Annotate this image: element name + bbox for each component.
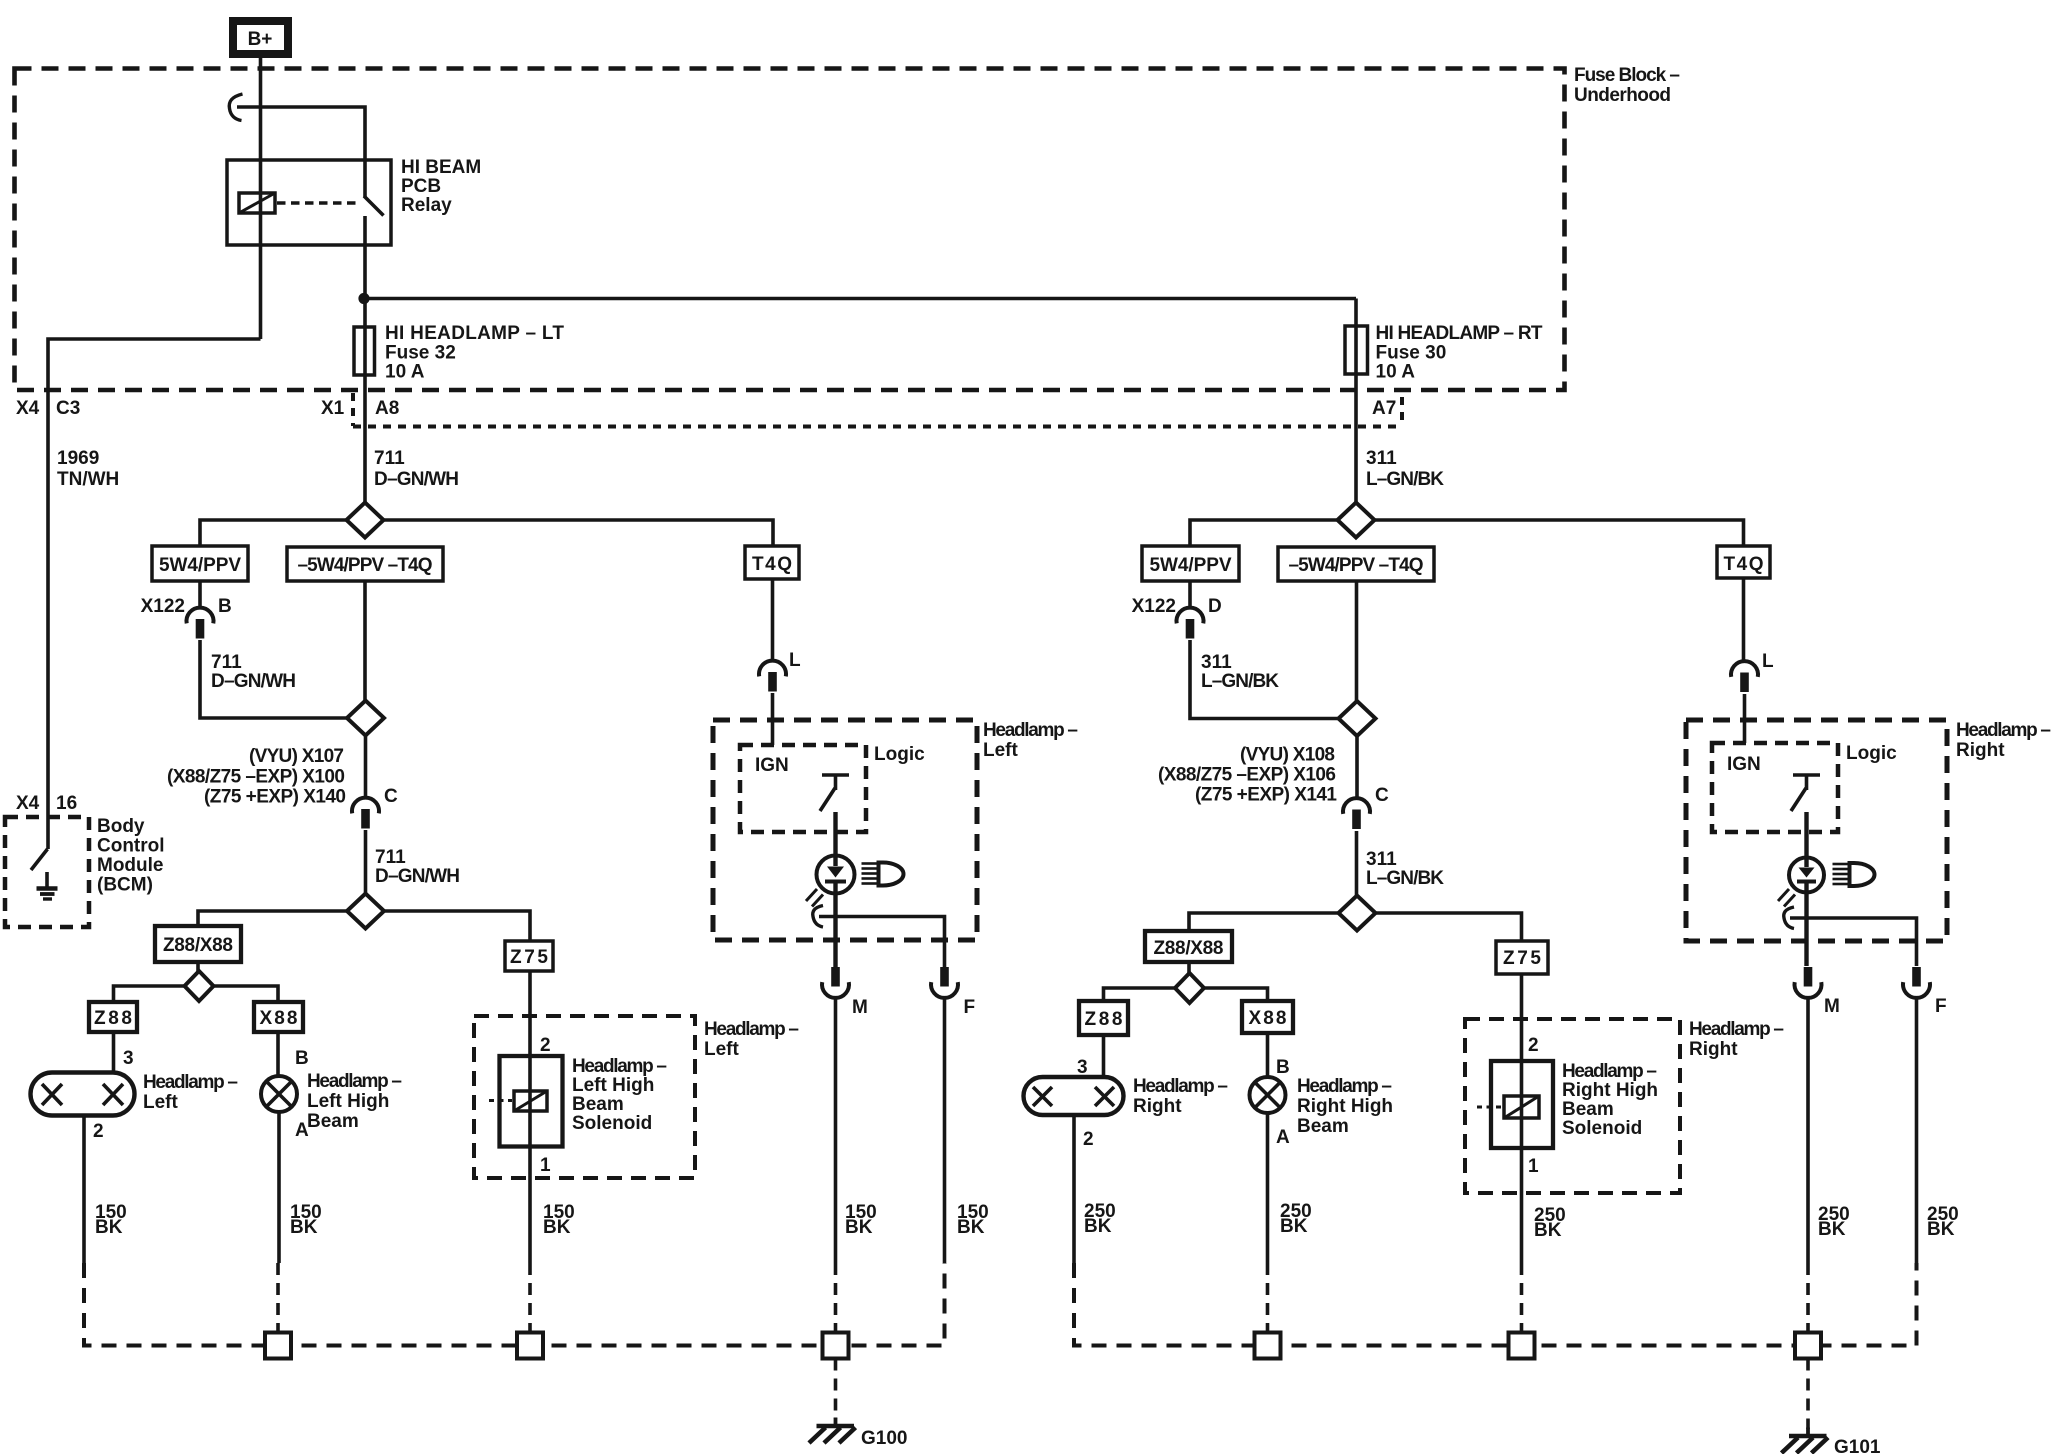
- label Headlamp - Left (solenoid box): [704, 1019, 799, 1060]
- svg-text:(X88/Z75 –EXP) X106: (X88/Z75 –EXP) X106: [1158, 765, 1336, 786]
- svg-text:Z75: Z75: [1503, 948, 1541, 969]
- svg-text:16: 16: [56, 793, 77, 814]
- fuse F30 HI HEADLAMP RT: [1345, 326, 1368, 374]
- ground junction square (X88 right drop): [1255, 1333, 1281, 1359]
- svg-text:10 A: 10 A: [1376, 362, 1416, 383]
- svg-text:Headlamp –: Headlamp –: [1297, 1076, 1392, 1097]
- inline connector pin C right: [1343, 798, 1370, 829]
- svg-text:TN/WH: TN/WH: [57, 469, 119, 490]
- svg-text:BK: BK: [95, 1217, 123, 1238]
- ignition switch symbol left: [820, 775, 849, 811]
- svg-text:A: A: [1276, 1127, 1290, 1148]
- svg-text:1: 1: [540, 1155, 551, 1176]
- svg-text:(Z75 +EXP) X141: (Z75 +EXP) X141: [1195, 785, 1337, 806]
- svg-text:Z88/X88: Z88/X88: [163, 935, 233, 956]
- svg-text:X4: X4: [16, 793, 40, 814]
- splice S3 left: [347, 894, 384, 929]
- wire Z88/X88 to splice S4: [196, 962, 200, 972]
- svg-text:HI HEADLAMP – LT: HI HEADLAMP – LT: [385, 323, 564, 344]
- ground junction square (M right drop): [1795, 1333, 1821, 1359]
- svg-text:X122: X122: [141, 596, 185, 617]
- headlamp right high beam bulb: [1250, 1077, 1286, 1113]
- relay control wire: [237, 107, 365, 160]
- label Headlamp - Right (module): [1956, 720, 2051, 761]
- svg-text:Headlamp –: Headlamp –: [1956, 720, 2051, 741]
- connector X1 stub right: [1400, 397, 1404, 426]
- relay coil: [239, 193, 275, 213]
- LED indicator right: [1778, 857, 1824, 907]
- wire S1R to 5W4/PPV right: [1190, 520, 1338, 546]
- svg-text:Beam: Beam: [1297, 1116, 1349, 1137]
- ground bus left dashed: [84, 1263, 945, 1346]
- svg-text:B: B: [218, 596, 232, 617]
- wire S4R to Z88 right: [1104, 988, 1176, 1001]
- IGN dashed box left: [740, 745, 866, 832]
- wire 5W4/PPV right to connector X122-D: [1188, 581, 1192, 608]
- ground junction square (X88 drop): [265, 1333, 291, 1359]
- label connector X1 pin A8: [321, 398, 399, 419]
- wire label 311 L-GN/BK mid: [1201, 652, 1279, 692]
- relay actuation dashed link: [277, 201, 357, 205]
- svg-text:T4Q: T4Q: [1724, 554, 1764, 575]
- svg-text:X88: X88: [1249, 1008, 1287, 1029]
- headlamp right module dashed box: [1686, 720, 1947, 941]
- splice S2 left: [347, 701, 384, 736]
- branch wire to pin F right: [1790, 918, 1917, 966]
- svg-text:Headlamp –: Headlamp –: [1689, 1019, 1784, 1040]
- wire X122-D to splice S2R: [1190, 640, 1339, 719]
- splice S1 left: [347, 503, 384, 538]
- wire to ground G100: [834, 1359, 838, 1420]
- wire S1R to T4Q right: [1375, 520, 1744, 546]
- svg-text:311: 311: [1366, 849, 1397, 870]
- svg-text:D–GN/WH: D–GN/WH: [375, 866, 460, 887]
- solenoid body right: [1491, 1061, 1553, 1148]
- splice S4 right: [1175, 973, 1204, 1003]
- svg-text:Z88/X88: Z88/X88: [1154, 938, 1224, 959]
- svg-text:BK: BK: [1927, 1219, 1955, 1240]
- inline connector pin L right: [1731, 661, 1758, 692]
- BCM switch blade: [31, 849, 48, 870]
- relay switch contact wire: [363, 160, 367, 197]
- wire S1 to 5W4/PPV: [200, 520, 347, 546]
- svg-text:B: B: [295, 1048, 309, 1069]
- svg-text:5W4/PPV: 5W4/PPV: [159, 555, 241, 576]
- wire Z75 to solenoid: [528, 971, 532, 1263]
- wire label 1969 TN/WH: [57, 448, 119, 490]
- svg-text:1969: 1969: [57, 448, 99, 469]
- wire switch to LED left: [833, 812, 837, 857]
- connector pin F left: [931, 967, 958, 998]
- svg-text:Z88: Z88: [1085, 1009, 1123, 1030]
- wire -5W4/PPV-T4Q right to splice S2R: [1355, 581, 1359, 702]
- ground G101: [1782, 1428, 1829, 1454]
- svg-text:C3: C3: [56, 398, 80, 419]
- svg-text:(VYU) X107: (VYU) X107: [249, 746, 344, 767]
- svg-text:Left: Left: [983, 740, 1019, 761]
- wire label 150 BK (F): [957, 1202, 989, 1238]
- label Headlamp - Left High Beam: [307, 1071, 402, 1132]
- svg-text:IGN: IGN: [1727, 754, 1761, 775]
- wire S3 to Z88/X88: [198, 911, 347, 926]
- net box -5W4/PPV -T4Q left: [287, 547, 443, 581]
- connector X1 dotted boundary: [353, 425, 1402, 429]
- svg-text:BK: BK: [290, 1217, 318, 1238]
- svg-text:PCB: PCB: [401, 176, 441, 197]
- svg-text:Headlamp –: Headlamp –: [1133, 1076, 1228, 1097]
- wire coil to BCM branch horizontal: [48, 339, 261, 849]
- svg-text:Headlamp –: Headlamp –: [307, 1071, 402, 1092]
- wire label 150 BK (M): [845, 1202, 877, 1238]
- net box Z88 left: [89, 1002, 137, 1032]
- svg-text:Z88: Z88: [94, 1008, 132, 1029]
- junction node dot: [358, 293, 369, 304]
- wire to ground G101: [1806, 1359, 1810, 1430]
- label fuse 32: [385, 323, 564, 383]
- branch wire to pin F left: [819, 917, 945, 968]
- inline connector pin C left: [352, 798, 379, 829]
- wire L right to logic module: [1743, 694, 1747, 743]
- svg-text:Right High: Right High: [1562, 1080, 1658, 1101]
- clip curl at relay control wire end: [229, 94, 242, 121]
- wire Z75 right to solenoid: [1520, 974, 1524, 1263]
- label Fuse Block - Underhood: [1574, 65, 1680, 106]
- net box 5W4/PPV right: [1142, 546, 1239, 581]
- wire label 311 L-GN/BK: [1366, 448, 1444, 490]
- label Headlamp - Left (module): [983, 720, 1078, 761]
- wire label 150 BK (headlamp left): [95, 1202, 127, 1238]
- solenoid coil right: [1504, 1096, 1539, 1118]
- ground junction square (solenoid right drop): [1509, 1333, 1535, 1359]
- LED indicator left: [806, 856, 855, 907]
- wire X88 to high beam pin B: [276, 1032, 280, 1076]
- svg-text:BK: BK: [957, 1217, 985, 1238]
- net box -5W4/PPV -T4Q right: [1278, 547, 1434, 581]
- label Headlamp - Left: [143, 1072, 238, 1113]
- svg-text:Solenoid: Solenoid: [572, 1113, 652, 1134]
- svg-text:M: M: [1824, 996, 1840, 1017]
- wire T4Q right to connector L: [1742, 578, 1746, 661]
- wire C right to splice S3R: [1355, 831, 1359, 896]
- svg-text:Headlamp –: Headlamp –: [143, 1072, 238, 1093]
- headlamp beam icon left: [862, 863, 904, 886]
- svg-text:2: 2: [93, 1121, 104, 1142]
- connector pin F right: [1903, 967, 1930, 998]
- net box X88 right: [1242, 1001, 1293, 1033]
- svg-text:F: F: [964, 997, 976, 1018]
- svg-text:311: 311: [1201, 652, 1232, 673]
- headlamp left high beam bulb: [261, 1076, 297, 1112]
- solenoid linkage dashed stub right: [1477, 1106, 1503, 1109]
- headlamp left bulb (dual filament): [31, 1073, 135, 1116]
- wire Z88/X88 right to splice S4R: [1187, 962, 1191, 974]
- label Headlamp - Right: [1133, 1076, 1228, 1117]
- wire Z88 right to headlamp pin 3: [1102, 1035, 1106, 1078]
- inline connector X122 pin D: [1177, 608, 1204, 639]
- label fuse 30: [1376, 323, 1543, 383]
- svg-text:Headlamp –: Headlamp –: [1562, 1061, 1657, 1082]
- svg-text:2: 2: [540, 1035, 551, 1056]
- label Headlamp Left High Beam Solenoid: [572, 1056, 667, 1134]
- svg-text:3: 3: [123, 1048, 134, 1069]
- connector X1 stub left: [351, 393, 355, 426]
- label Headlamp - Right (solenoid box): [1689, 1019, 1784, 1060]
- wire S2R to connector C right: [1355, 736, 1359, 799]
- svg-text:Underhood: Underhood: [1574, 85, 1671, 106]
- wire F down: [943, 998, 947, 1263]
- svg-text:A: A: [295, 1120, 309, 1141]
- svg-text:X88: X88: [260, 1008, 298, 1029]
- wire C to splice S3: [364, 830, 368, 894]
- wire headlamp right pin 2 down: [1072, 1115, 1076, 1263]
- wire L to logic module: [771, 693, 775, 745]
- svg-text:Fuse 30: Fuse 30: [1376, 343, 1447, 364]
- svg-text:T4Q: T4Q: [752, 554, 792, 575]
- svg-text:Control: Control: [97, 836, 165, 857]
- net box T4Q right: [1717, 546, 1770, 578]
- wire label 150 BK (high beam): [290, 1202, 322, 1238]
- svg-text:Right High: Right High: [1297, 1096, 1393, 1117]
- wire label 250 BK (high beam right): [1280, 1201, 1312, 1237]
- wire F right down: [1915, 998, 1919, 1263]
- connector pin M left: [822, 967, 849, 998]
- clip curl at branch right: [1784, 907, 1794, 929]
- wire X122-B to splice S2: [200, 640, 348, 718]
- svg-text:BK: BK: [1084, 1216, 1112, 1237]
- svg-text:BK: BK: [1818, 1219, 1846, 1240]
- svg-text:Right: Right: [1133, 1096, 1182, 1117]
- net box T4Q left: [745, 546, 799, 579]
- solenoid body left: [500, 1056, 563, 1147]
- svg-text:D–GN/WH: D–GN/WH: [211, 671, 296, 692]
- svg-text:711: 711: [374, 448, 405, 469]
- svg-text:10 A: 10 A: [385, 362, 425, 383]
- wire S4 to X88: [213, 986, 278, 1002]
- solenoid housing dashed box right: [1465, 1019, 1680, 1193]
- svg-text:B+: B+: [248, 29, 273, 50]
- wire S3 to Z75: [384, 911, 530, 941]
- net box Z75 right: [1496, 941, 1548, 974]
- svg-text:C: C: [384, 786, 398, 807]
- wire Z88 to headlamp pin 3: [112, 1032, 116, 1074]
- svg-text:Left High: Left High: [307, 1091, 389, 1112]
- wire label 711 D-GN/WH lower: [375, 847, 460, 887]
- battery feed terminal B+: [229, 17, 292, 58]
- svg-text:Left: Left: [143, 1092, 179, 1113]
- svg-text:Body: Body: [97, 816, 145, 837]
- label connector options X107/X100/X140: [167, 746, 346, 808]
- ground junction square (solenoid drop): [517, 1333, 543, 1359]
- ground G100: [809, 1418, 856, 1444]
- label HI BEAM PCB Relay: [401, 157, 481, 216]
- svg-text:C: C: [1375, 785, 1389, 806]
- svg-text:G100: G100: [861, 1428, 907, 1449]
- svg-text:711: 711: [375, 847, 406, 868]
- svg-text:Left: Left: [704, 1039, 740, 1060]
- svg-text:Module: Module: [97, 855, 164, 876]
- relay HI BEAM PCB box U1: [227, 160, 391, 245]
- svg-text:2: 2: [1083, 1129, 1094, 1150]
- wire S4R to X88 right: [1204, 988, 1268, 1001]
- net box X88 left: [254, 1002, 303, 1032]
- svg-text:Right: Right: [1689, 1039, 1738, 1060]
- wire label 150 BK (solenoid): [543, 1202, 575, 1238]
- svg-text:F: F: [1935, 996, 1947, 1017]
- label Body Control Module (BCM): [97, 816, 165, 896]
- svg-text:A7: A7: [1372, 398, 1396, 419]
- svg-text:–5W4/PPV –T4Q: –5W4/PPV –T4Q: [298, 555, 433, 576]
- svg-text:(X88/Z75 –EXP) X100: (X88/Z75 –EXP) X100: [167, 767, 345, 788]
- Fuse Block - Underhood dashed boundary: [15, 69, 1565, 391]
- svg-text:(Z75 +EXP) X140: (Z75 +EXP) X140: [204, 787, 346, 808]
- connector pin M right: [1795, 967, 1822, 998]
- wire high beam pin A down: [277, 1112, 281, 1263]
- headlamp left module dashed box: [713, 720, 977, 940]
- solenoid housing dashed box left: [474, 1016, 695, 1178]
- svg-text:L: L: [1762, 651, 1774, 672]
- svg-text:Headlamp –: Headlamp –: [983, 720, 1078, 741]
- ignition switch symbol right: [1791, 775, 1820, 811]
- relay switch blade: [364, 196, 384, 216]
- svg-text:Right: Right: [1956, 740, 2005, 761]
- svg-text:–5W4/PPV –T4Q: –5W4/PPV –T4Q: [1289, 555, 1424, 576]
- svg-text:BK: BK: [1280, 1216, 1308, 1237]
- svg-text:311: 311: [1366, 448, 1397, 469]
- wire M down: [834, 998, 838, 1263]
- svg-text:Logic: Logic: [874, 744, 925, 765]
- headlamp right bulb (dual filament): [1024, 1077, 1124, 1115]
- wire M right down: [1806, 998, 1810, 1263]
- wire down to fuse 30 and splice S1R: [1354, 299, 1358, 503]
- svg-text:Left High: Left High: [572, 1075, 654, 1096]
- wire S1 to T4Q: [384, 520, 774, 546]
- svg-text:BK: BK: [845, 1217, 873, 1238]
- wire S3R to Z88/X88 right: [1189, 913, 1339, 931]
- wire relay output to fuse 32 and splice S1: [363, 216, 367, 502]
- label Headlamp - Right High Beam: [1297, 1076, 1393, 1137]
- svg-text:1: 1: [1528, 1156, 1539, 1177]
- svg-text:D–GN/WH: D–GN/WH: [374, 469, 459, 490]
- svg-text:Solenoid: Solenoid: [1562, 1118, 1642, 1139]
- net box Z75 left: [505, 941, 553, 971]
- inline connector pin L left: [759, 661, 786, 692]
- svg-text:Beam: Beam: [307, 1111, 359, 1132]
- svg-text:B: B: [1276, 1057, 1290, 1078]
- wire label 250 BK (F right): [1927, 1204, 1959, 1240]
- wire label 711 D-GN/WH mid: [211, 652, 296, 692]
- solenoid coil left: [514, 1091, 547, 1111]
- svg-text:M: M: [852, 997, 868, 1018]
- fuse F32 HI HEADLAMP LT: [354, 327, 375, 375]
- label Headlamp Right High Beam Solenoid: [1562, 1061, 1658, 1139]
- clip curl at branch left: [813, 906, 823, 928]
- svg-text:Beam: Beam: [1562, 1099, 1614, 1120]
- svg-text:2: 2: [1528, 1035, 1539, 1056]
- splice S3 right: [1339, 896, 1376, 931]
- svg-text:Beam: Beam: [572, 1094, 624, 1115]
- svg-text:D: D: [1208, 596, 1222, 617]
- svg-text:X122: X122: [1132, 596, 1176, 617]
- solenoid linkage dashed stub: [489, 1099, 512, 1102]
- wire label 250 BK (headlamp right): [1084, 1201, 1116, 1237]
- svg-text:X1: X1: [321, 398, 345, 419]
- headlamp beam icon right: [1833, 863, 1875, 886]
- svg-text:711: 711: [211, 652, 242, 673]
- BCM ground symbol: [37, 872, 58, 899]
- wire label 711 D-GN/WH: [374, 448, 459, 490]
- svg-text:L–GN/BK: L–GN/BK: [1201, 671, 1279, 692]
- svg-text:L–GN/BK: L–GN/BK: [1366, 469, 1444, 490]
- splice S2 right: [1339, 701, 1376, 736]
- wire B+ down through relay coil: [259, 58, 263, 339]
- svg-text:(BCM): (BCM): [97, 875, 153, 896]
- net box 5W4/PPV left: [152, 546, 248, 581]
- wire headlamp pin 2 down: [82, 1116, 86, 1264]
- svg-text:L: L: [789, 650, 801, 671]
- wire high beam right pin A down: [1266, 1113, 1270, 1263]
- svg-text:Fuse Block –: Fuse Block –: [1574, 65, 1680, 86]
- wire cross feed to right fuse: [365, 297, 1356, 301]
- net box Z88 right: [1079, 1001, 1128, 1035]
- wire switch to LED right: [1804, 812, 1808, 858]
- svg-text:L–GN/BK: L–GN/BK: [1366, 868, 1444, 889]
- svg-text:X4: X4: [16, 398, 40, 419]
- splice S4 left: [185, 971, 214, 1001]
- svg-text:5W4/PPV: 5W4/PPV: [1150, 555, 1232, 576]
- wire S3R to Z75 right: [1376, 913, 1522, 941]
- svg-text:HI HEADLAMP – RT: HI HEADLAMP – RT: [1376, 323, 1543, 344]
- svg-text:Relay: Relay: [401, 195, 452, 216]
- svg-text:(VYU) X108: (VYU) X108: [1240, 745, 1335, 766]
- IGN dashed box right: [1712, 743, 1838, 832]
- wire LED to pin M right: [1804, 883, 1808, 966]
- svg-text:A8: A8: [375, 398, 399, 419]
- wire label 250 BK (solenoid right): [1534, 1205, 1566, 1241]
- svg-text:Z75: Z75: [510, 947, 548, 968]
- wire X88 right to high beam pin B: [1266, 1033, 1270, 1078]
- svg-text:BK: BK: [1534, 1220, 1562, 1241]
- svg-text:IGN: IGN: [755, 755, 789, 776]
- wire T4Q to connector L: [771, 579, 775, 661]
- wire -5W4/PPV-T4Q to splice S2: [363, 581, 367, 702]
- svg-text:Logic: Logic: [1846, 743, 1897, 764]
- BCM dashed box: [5, 817, 89, 927]
- svg-text:BK: BK: [543, 1217, 571, 1238]
- wire LED to pin M left: [833, 883, 837, 967]
- splice S1 right: [1338, 503, 1375, 538]
- label connector X4 pin 16: [16, 793, 77, 814]
- ground bus right dashed: [1074, 1263, 1917, 1346]
- label connector X4 pin C3: [16, 398, 80, 419]
- wire S4 to Z88: [114, 986, 186, 1002]
- svg-text:Headlamp –: Headlamp –: [572, 1056, 667, 1077]
- svg-text:Headlamp –: Headlamp –: [704, 1019, 799, 1040]
- inline connector X122 pin B: [187, 608, 214, 639]
- wire S2 to connector C: [364, 736, 368, 799]
- wire label 311 L-GN/BK lower: [1366, 849, 1444, 889]
- net box Z88/X88 right: [1145, 931, 1232, 962]
- svg-text:HI BEAM: HI BEAM: [401, 157, 481, 178]
- svg-text:G101: G101: [1834, 1437, 1881, 1454]
- wire label 250 BK (M right): [1818, 1204, 1850, 1240]
- label connector options X108/X106/X141: [1158, 745, 1337, 806]
- svg-text:Fuse 32: Fuse 32: [385, 343, 456, 364]
- wire 5W4/PPV to connector X122-B: [198, 581, 202, 608]
- net box Z88/X88 left: [155, 926, 241, 962]
- ground junction square (M drop): [823, 1333, 849, 1359]
